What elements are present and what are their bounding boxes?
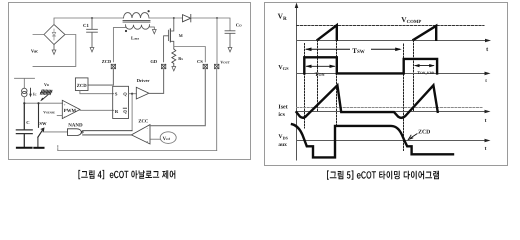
capacitor C [16, 103, 32, 147]
pin VOUT [215, 64, 219, 68]
node: drain junction [173, 17, 175, 19]
Ton_kbd dimension arrow [414, 64, 435, 67]
buffer Driver [136, 78, 149, 99]
row2 t-axis [297, 73, 487, 75]
svg-text:Q: Q [123, 92, 127, 97]
scribble annotation [40, 90, 52, 95]
VGS pulse waveform [304, 57, 437, 73]
svg-text:NAND: NAND [68, 123, 83, 129]
svg-text:t: t [485, 118, 487, 124]
pin CS [203, 64, 207, 68]
node Q junction [131, 93, 133, 95]
block ZCD [75, 78, 88, 91]
wire: CS tap from source node [174, 47, 206, 62]
wire: Vout sense line down [216, 18, 218, 151]
svg-text:t: t [486, 46, 489, 53]
svg-text:C: C [26, 120, 29, 125]
svg-text:C1: C1 [83, 23, 89, 29]
node A [23, 102, 25, 104]
dotted guide x=403.5 [403, 44, 405, 151]
wire: ZCD block to latch S [80, 91, 114, 94]
transformer polarity dot (aux) [125, 30, 127, 32]
wire: CS pin down to ZCC input [150, 69, 206, 126]
dotted guide x=317.6 [317, 40, 319, 111]
source Vref oval [160, 132, 176, 144]
wire: Q junction down to NAND line [131, 94, 133, 131]
gate NAND [68, 129, 84, 136]
row3 axis arrowhead [485, 110, 491, 114]
svg-text:M: M [179, 33, 183, 38]
bridge rectifier BR1 [44, 25, 65, 45]
annotation arrow to node [42, 95, 48, 100]
ground arrow below Co [228, 48, 232, 52]
node: C1 top junction [91, 17, 93, 19]
svg-text:Vref: Vref [163, 136, 171, 142]
svg-text:VGS: VGS [278, 64, 289, 71]
transformer polarity dot (primary) [148, 10, 150, 12]
svg-text:S: S [115, 92, 118, 97]
transformer aux winding Laux [126, 25, 150, 29]
row1 t-axis [297, 40, 487, 42]
caption figure 4 [78, 170, 175, 179]
wire: Vref to ZCC input [151, 138, 160, 140]
svg-text:TSW: TSW [352, 47, 364, 55]
pin GD [161, 64, 165, 68]
MOSFET M [164, 18, 174, 62]
capacitor Co [225, 23, 242, 48]
VDS aux waveform [292, 124, 453, 157]
svg-text:t: t [485, 79, 487, 84]
transformer T1 primary winding [124, 13, 150, 18]
ground arrow below C1 [90, 48, 94, 52]
wire: NAND output pair to ZCC [83, 131, 133, 135]
node: Vout tap junction [216, 17, 218, 19]
node B [37, 102, 39, 104]
capacitor C1 [83, 18, 97, 48]
wire: driver output up to GD pin [149, 69, 164, 94]
wire: bridge top to rail [54, 18, 124, 25]
svg-text:CO: CO [236, 23, 242, 28]
ground bar under SW [34, 147, 43, 149]
Ton dimension arrow [305, 65, 335, 68]
wire: current source node to PWM input [24, 97, 62, 103]
wire: PWM output to latch R [80, 109, 114, 111]
svg-text:Iset: Iset [278, 104, 287, 110]
switch SW [38, 103, 47, 147]
ground arrow below Rs [172, 67, 176, 71]
Tsw dimension arrows [305, 48, 402, 52]
dotted guide x=413.5 [413, 40, 415, 111]
svg-text:Q: Q [123, 109, 127, 114]
wire: bottom feedback run [58, 150, 217, 152]
svg-text:TON_KBD: TON_KBD [417, 70, 434, 75]
svg-text:VR: VR [278, 11, 287, 22]
wire: NAND input from switch [43, 131, 68, 133]
svg-text:TON: TON [315, 72, 325, 78]
svg-text:VSENSE: VSENSE [43, 111, 55, 115]
svg-text:VDS: VDS [278, 134, 288, 140]
inductor current waveform [297, 85, 438, 118]
arrow Ic [30, 88, 32, 94]
wire: rail to MOSFET drain junction and diode [149, 17, 183, 19]
vertical axis arrowhead [295, 3, 299, 9]
svg-text:CS: CS [197, 59, 203, 64]
svg-text:+: + [146, 140, 148, 144]
svg-text:Vac: Vac [31, 49, 38, 54]
svg-text:-: - [64, 114, 66, 119]
svg-text:Laux: Laux [131, 35, 139, 40]
row4 t-axis [297, 140, 487, 142]
svg-text:ZCD: ZCD [77, 83, 88, 89]
svg-text:aux: aux [278, 142, 287, 148]
svg-text:ZCD: ZCD [102, 59, 112, 64]
resistor Rs [172, 49, 176, 67]
svg-text:VB: VB [44, 82, 49, 87]
dotted guide x=336.8 [336, 40, 338, 126]
wire: diode to output corner [191, 18, 230, 31]
VR ramp 2 [414, 26, 437, 40]
row4 axis arrowhead [485, 139, 491, 143]
transformer core [123, 21, 150, 23]
dashed Iset level line [297, 107, 483, 109]
svg-text:ZCC: ZCC [138, 119, 149, 125]
wire: ZCD pin down to ZCD block [88, 69, 113, 85]
dotted guide x=304.3 [304, 44, 306, 129]
svg-text:RS: RS [178, 56, 183, 61]
svg-text:t: t [485, 146, 487, 152]
svg-text:Driver: Driver [137, 78, 150, 83]
wire: aux left end to ZCD pin [113, 25, 125, 62]
svg-text:VCOMP: VCOMP [401, 15, 421, 25]
svg-text:+: + [64, 102, 67, 107]
svg-text:ZCD: ZCD [418, 129, 430, 135]
current source I1 [22, 88, 27, 97]
SR latch U1 [113, 86, 129, 118]
svg-text:SW: SW [39, 121, 47, 126]
svg-text:IC: IC [33, 92, 37, 97]
svg-text:GD: GD [150, 59, 158, 64]
vertical axis [296, 7, 298, 160]
svg-text:VOUT: VOUT [220, 59, 229, 64]
diode D1 [183, 14, 191, 22]
dashed Vcomp level line [297, 25, 485, 27]
ground bar under C [17, 147, 32, 149]
row3 t-axis [297, 111, 487, 113]
svg-text:R: R [115, 109, 119, 114]
supply bar for current source [15, 78, 35, 88]
left figure frame [9, 3, 251, 160]
wire+arrow: aux right end to ground [150, 25, 157, 34]
row1 axis arrowhead [485, 39, 491, 43]
row2 axis arrowhead [485, 72, 491, 76]
right figure frame [265, 3, 508, 166]
svg-text:-: - [147, 127, 149, 131]
wire: bridge input loop [33, 35, 76, 67]
comparator ZCC [131, 119, 150, 145]
pin ZCD [111, 64, 115, 68]
caption figure 5 [327, 170, 439, 179]
wire: Vsense stub to PWM [57, 115, 62, 117]
svg-text:ics: ics [278, 111, 285, 118]
wire: latch Q to driver [129, 93, 137, 95]
svg-text:PWM: PWM [64, 108, 77, 114]
VR ramp 1 [318, 25, 337, 40]
comparator PWM [62, 100, 80, 119]
ground arrow below bridge [53, 45, 55, 51]
ZCD pointer arrow [408, 134, 417, 140]
